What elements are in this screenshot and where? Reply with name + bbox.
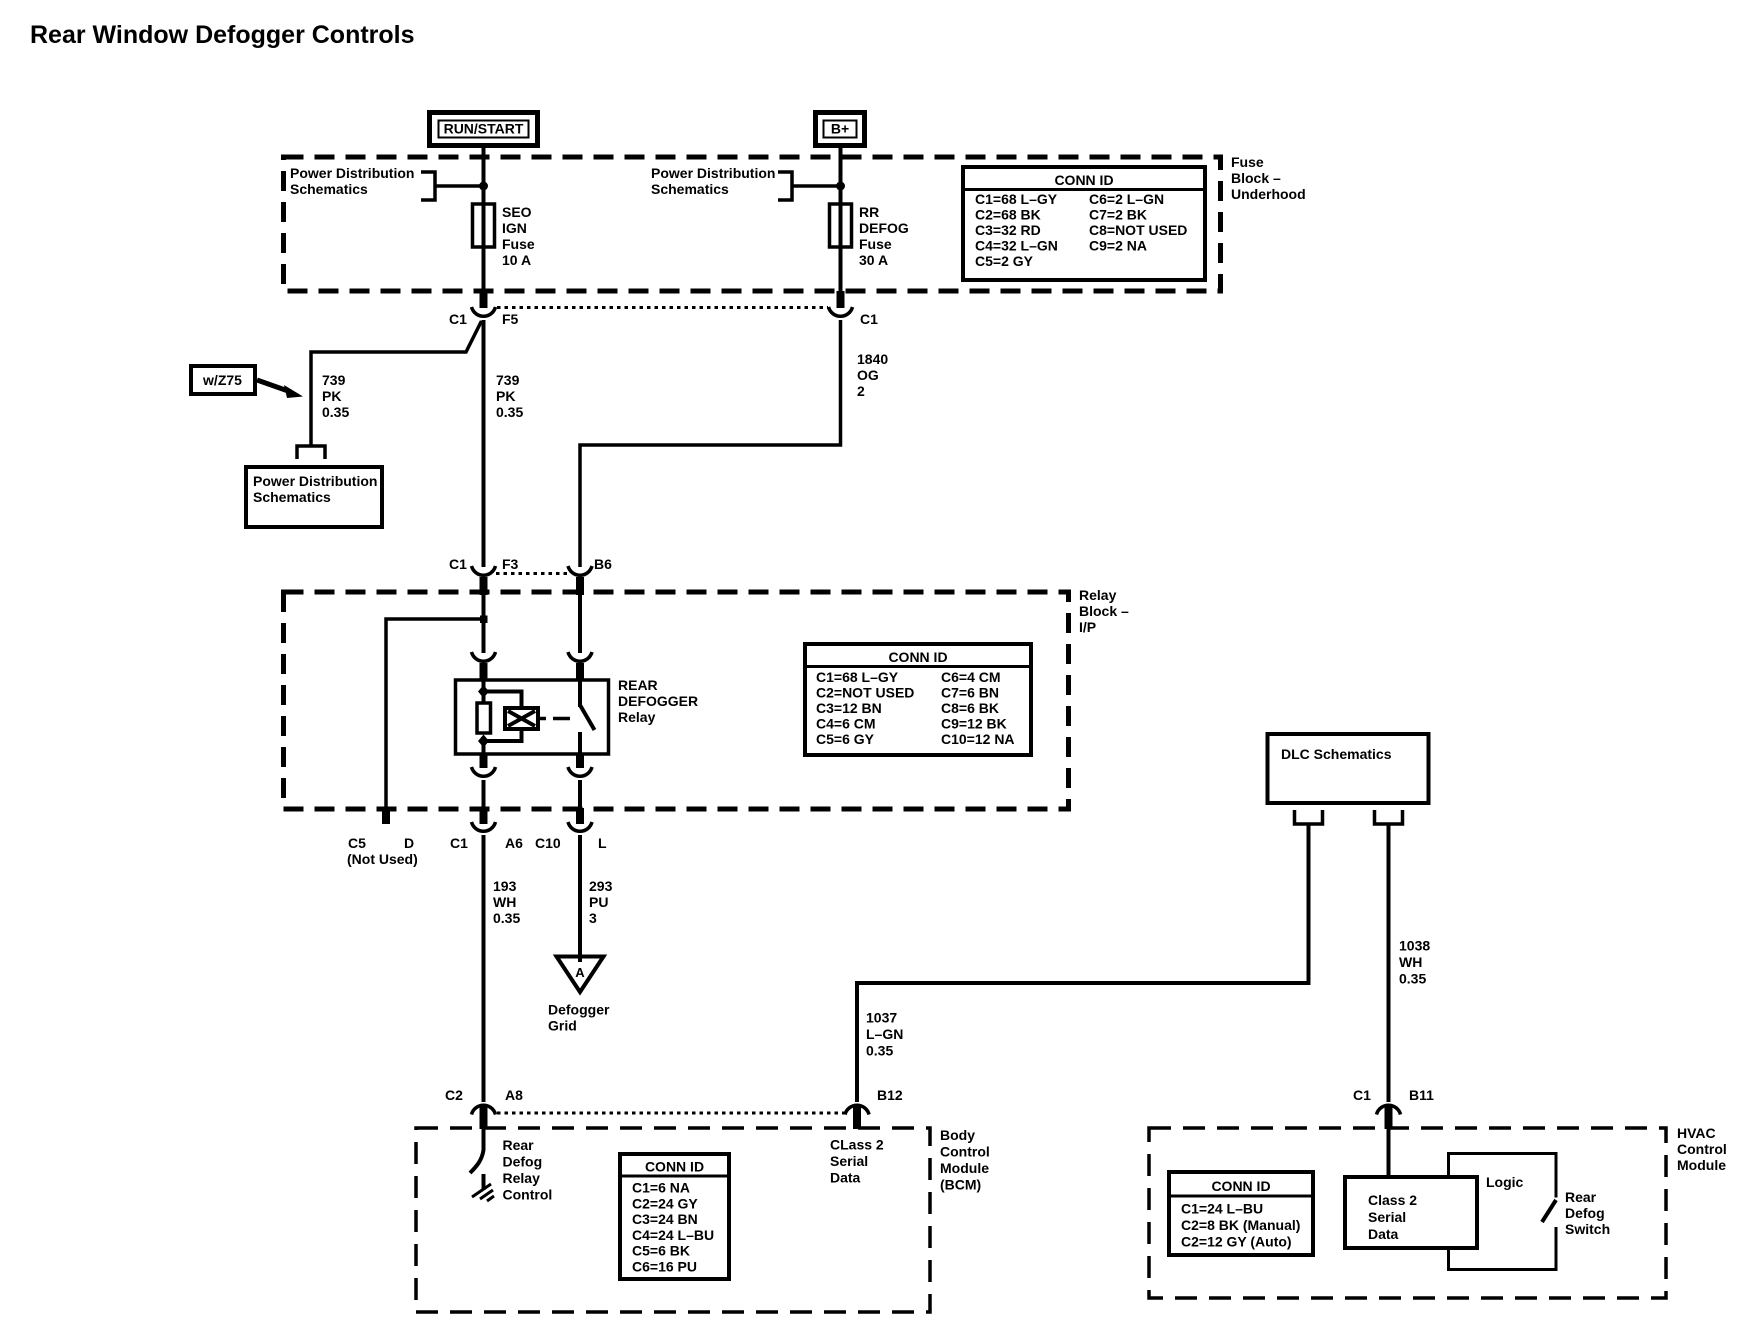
box Power Distribution Schematics (246, 467, 382, 527)
svg-text:DLC Schematics: DLC Schematics (1281, 746, 1392, 762)
svg-text:C9=12 BK: C9=12 BK (941, 716, 1007, 732)
fuse RR DEFOG 30A (830, 204, 909, 268)
wire 293 PU 3 (578, 835, 582, 962)
label w/Z75 (191, 366, 255, 394)
pin stub F5 (480, 291, 488, 308)
wire 1840 OG 2 (580, 320, 841, 567)
svg-text:C2=68 BK: C2=68 BK (975, 207, 1041, 223)
svg-text:C4=24 L–BU: C4=24 L–BU (632, 1227, 714, 1243)
svg-text:193: 193 (493, 878, 517, 894)
wire label 739 PK 0.35 (branch) (322, 372, 349, 420)
svg-text:C1: C1 (1353, 1087, 1371, 1103)
pin stub B6 into relay block (576, 577, 584, 595)
svg-text:Power Distribution: Power Distribution (290, 165, 414, 181)
relay bottom pin arc (coil) (472, 767, 496, 776)
svg-text:3: 3 (589, 910, 597, 926)
svg-text:C2=NOT USED: C2=NOT USED (816, 685, 914, 701)
svg-text:w/Z75: w/Z75 (202, 372, 242, 388)
svg-text:C4=32 L–GN: C4=32 L–GN (975, 238, 1058, 254)
relay switch contact (578, 732, 582, 754)
svg-text:REAR: REAR (618, 677, 658, 693)
relay pin stub (coil) (480, 663, 488, 681)
svg-text:Serial: Serial (830, 1153, 868, 1169)
svg-text:Data: Data (1368, 1226, 1399, 1242)
wire label 1038 WH 0.35 (1399, 938, 1430, 987)
connector C10/L (535, 822, 607, 851)
relay pin stub (switch) (576, 663, 584, 681)
svg-text:C2=24 GY: C2=24 GY (632, 1195, 698, 1211)
svg-text:C5=2 GY: C5=2 GY (975, 253, 1034, 269)
power feed B+ (816, 113, 865, 146)
svg-text:CONN ID: CONN ID (1211, 1178, 1270, 1194)
CONN ID table (BCM) (620, 1154, 729, 1279)
svg-text:C2=12 GY (Auto): C2=12 GY (Auto) (1181, 1234, 1292, 1250)
fuse block underhood dashed box (284, 157, 1221, 291)
svg-text:0.35: 0.35 (866, 1043, 893, 1059)
svg-text:739: 739 (322, 372, 346, 388)
svg-text:A8: A8 (505, 1087, 523, 1103)
svg-text:Defog: Defog (1565, 1205, 1605, 1221)
svg-text:C1: C1 (450, 835, 468, 851)
note Power Distribution Schematics (right) (651, 165, 840, 200)
svg-text:OG: OG (857, 367, 879, 383)
svg-text:A: A (575, 965, 585, 980)
svg-text:PU: PU (589, 894, 608, 910)
svg-text:293: 293 (589, 878, 613, 894)
defogger grid symbol A (557, 957, 604, 993)
svg-text:Underhood: Underhood (1231, 186, 1306, 202)
svg-text:C6=2 L–GN: C6=2 L–GN (1089, 191, 1164, 207)
svg-text:C6=16 PU: C6=16 PU (632, 1259, 697, 1275)
svg-text:Relay: Relay (503, 1170, 541, 1186)
svg-text:C1=6 NA: C1=6 NA (632, 1180, 690, 1196)
svg-text:1038: 1038 (1399, 938, 1430, 954)
svg-text:PK: PK (322, 388, 341, 404)
svg-text:C3=12 BN: C3=12 BN (816, 700, 882, 716)
relay REAR DEFOGGER box (456, 680, 609, 754)
svg-text:HVAC: HVAC (1677, 1125, 1716, 1141)
svg-text:C7=2 BK: C7=2 BK (1089, 207, 1147, 223)
box Logic (1449, 1154, 1557, 1270)
relay coil X-box (505, 708, 538, 729)
svg-text:F3: F3 (502, 556, 519, 572)
BCM dashed box (416, 1128, 930, 1312)
svg-text:C5=6 BK: C5=6 BK (632, 1243, 690, 1259)
svg-text:L: L (598, 835, 607, 851)
svg-text:CONN ID: CONN ID (888, 649, 947, 665)
wire B11 to Class 2 box (1387, 1129, 1391, 1178)
svg-text:Defog: Defog (503, 1154, 543, 1170)
in-line connector dotted line (fuse block bottom) (497, 306, 828, 309)
svg-text:Fuse: Fuse (1231, 154, 1264, 170)
pin stub B11 into HVAC (1385, 1107, 1393, 1129)
label HVAC Control Module (1677, 1125, 1727, 1173)
svg-text:Class 2: Class 2 (1368, 1192, 1417, 1208)
wire 1038 WH 0.35 (DLC to HVAC B11) (1387, 824, 1391, 1102)
wire 193 WH 0.35 (482, 835, 486, 1102)
relay coil wire top (482, 679, 486, 703)
wire label 1037 L-GN 0.35 (866, 1010, 903, 1059)
svg-text:RR: RR (859, 204, 879, 220)
svg-text:C1: C1 (860, 311, 878, 327)
svg-text:Defogger: Defogger (548, 1002, 610, 1018)
svg-text:B+: B+ (831, 121, 849, 137)
connector C1/A6 (450, 822, 523, 851)
relay bottom stub (switch) (576, 753, 584, 768)
pin stub C2/A8 into BCM (480, 1107, 488, 1129)
wire 739 PK 0.35 main (482, 320, 486, 567)
wire to C5/D not used (386, 619, 484, 809)
connector C1/F5 (449, 307, 519, 327)
svg-text:Rear: Rear (503, 1137, 535, 1153)
wire label 293 PU 3 (589, 878, 613, 926)
pin stub B12 into BCM (853, 1107, 861, 1129)
relay coil wire bottom (482, 741, 486, 754)
svg-text:C2=8 BK (Manual): C2=8 BK (Manual) (1181, 1217, 1300, 1233)
in-line connector dotted line (BCM top) (497, 1112, 845, 1115)
svg-text:Control: Control (940, 1144, 990, 1160)
svg-text:C1=24 L–BU: C1=24 L–BU (1181, 1201, 1263, 1217)
svg-text:C10=12 NA: C10=12 NA (941, 731, 1015, 747)
svg-text:DEFOGGER: DEFOGGER (618, 693, 698, 709)
svg-text:Control: Control (1677, 1141, 1727, 1157)
junction (not used branch) (480, 616, 488, 624)
svg-text:2: 2 (857, 383, 865, 399)
svg-text:Data: Data (830, 1170, 861, 1186)
svg-text:Module: Module (940, 1160, 989, 1176)
wire RUN/START to fuse F5 (482, 148, 486, 296)
HVAC dashed box (1149, 1128, 1666, 1298)
BCM driver lower stub (482, 1174, 486, 1190)
wire C1/F3 down to relay coil pin (482, 595, 486, 653)
svg-text:DEFOG: DEFOG (859, 220, 909, 236)
label Relay Block I/P (1079, 587, 1129, 635)
svg-text:0.35: 0.35 (493, 910, 520, 926)
junction dot (RUN/START feed) (479, 182, 488, 191)
connector B12 (845, 1087, 903, 1115)
relay top pin arc (coil side) (472, 652, 496, 661)
off-page pin symbol (to Power Distribution Schematics) (297, 446, 325, 459)
CONN ID table (relay block) (805, 644, 1031, 755)
svg-text:C5: C5 (348, 835, 366, 851)
pin stub C10/L (576, 808, 584, 824)
svg-text:Schematics: Schematics (253, 489, 331, 505)
pin stub B+ C1 (837, 291, 845, 308)
connector C2/A8 (445, 1087, 523, 1115)
svg-text:F5: F5 (502, 311, 519, 327)
connector C1 (B+ feed) (829, 307, 879, 327)
svg-text:CLass 2: CLass 2 (830, 1137, 884, 1153)
svg-text:1840: 1840 (857, 351, 888, 367)
svg-text:D: D (404, 835, 414, 851)
wire relay to block edge (coil) (482, 780, 486, 809)
svg-text:I/P: I/P (1079, 619, 1096, 635)
svg-text:C1: C1 (449, 556, 467, 572)
svg-text:PK: PK (496, 388, 515, 404)
svg-text:Body: Body (940, 1127, 975, 1143)
svg-text:Grid: Grid (548, 1018, 577, 1034)
svg-text:CONN ID: CONN ID (645, 1159, 704, 1175)
label Fuse Block Underhood (1231, 154, 1306, 202)
box DLC Schematics (1268, 734, 1429, 803)
relay switch blade (580, 705, 595, 730)
svg-text:B12: B12 (877, 1087, 903, 1103)
svg-text:Serial: Serial (1368, 1209, 1406, 1225)
svg-text:Relay: Relay (1079, 587, 1117, 603)
label Body Control Module (BCM) (940, 1127, 990, 1193)
relay top pin arc (switch side) (568, 652, 592, 661)
svg-text:C6=4 CM: C6=4 CM (941, 669, 1001, 685)
relay bottom stub (coil) (480, 753, 488, 768)
wire 1037 L-GN 0.35 (DLC to BCM B12) (857, 824, 1309, 1102)
relay bottom pin arc (switch) (568, 767, 592, 776)
svg-text:WH: WH (1399, 954, 1422, 970)
junction diamond top (478, 685, 489, 698)
svg-text:(Not Used): (Not Used) (347, 851, 418, 867)
svg-text:1037: 1037 (866, 1010, 897, 1026)
svg-text:C2: C2 (445, 1087, 463, 1103)
coil-switch dash link (538, 717, 570, 721)
svg-text:WH: WH (493, 894, 516, 910)
relay switch wire (578, 679, 582, 707)
svg-text:Control: Control (503, 1187, 553, 1203)
box Class 2 Serial Data (1345, 1177, 1477, 1248)
wire label 1840 OG 2 (857, 351, 888, 399)
svg-text:B11: B11 (1409, 1087, 1434, 1103)
svg-text:Fuse: Fuse (502, 236, 535, 252)
fuse SEO IGN 10A (473, 204, 535, 268)
svg-text:RUN/START: RUN/START (444, 121, 524, 137)
svg-text:B6: B6 (594, 556, 612, 572)
DLC pin symbol left (1295, 810, 1323, 824)
svg-text:Logic: Logic (1486, 1174, 1524, 1190)
svg-text:IGN: IGN (502, 220, 527, 236)
svg-text:C1=68 L–GY: C1=68 L–GY (816, 669, 899, 685)
svg-text:Rear: Rear (1565, 1189, 1597, 1205)
DLC pin symbol right (1375, 810, 1403, 824)
connector B6 (568, 556, 612, 575)
in-line connector dotted line (relay block top) (496, 572, 568, 575)
svg-text:739: 739 (496, 372, 520, 388)
svg-text:C1=68 L–GY: C1=68 L–GY (975, 191, 1058, 207)
svg-text:Block –: Block – (1231, 170, 1281, 186)
svg-text:C10: C10 (535, 835, 561, 851)
svg-text:L–GN: L–GN (866, 1026, 903, 1042)
label Rear Defog Relay Control (503, 1137, 553, 1203)
svg-text:C5=6 GY: C5=6 GY (816, 731, 875, 747)
svg-text:(BCM): (BCM) (940, 1177, 981, 1193)
svg-text:0.35: 0.35 (496, 404, 523, 420)
svg-text:10 A: 10 A (502, 252, 531, 268)
resistor (relay coil suppressor) (477, 703, 491, 733)
ground (chassis) (472, 1184, 494, 1201)
svg-text:Schematics: Schematics (290, 181, 368, 197)
label REAR DEFOGGER Relay (618, 677, 698, 725)
svg-text:C8=6 BK: C8=6 BK (941, 700, 999, 716)
svg-text:0.35: 0.35 (1399, 971, 1426, 987)
wire 739 PK branch (diagonal from C1/F5) (311, 321, 482, 445)
svg-text:C3=32 RD: C3=32 RD (975, 222, 1041, 238)
svg-text:Fuse: Fuse (859, 236, 892, 252)
label C5 D (Not Used) (347, 835, 418, 867)
pin stub C1/A6 (480, 808, 488, 824)
svg-text:SEO: SEO (502, 204, 532, 220)
svg-text:Power Distribution: Power Distribution (651, 165, 775, 181)
svg-text:C7=6 BN: C7=6 BN (941, 685, 999, 701)
svg-text:Power Distribution: Power Distribution (253, 473, 377, 489)
wire label 193 WH 0.35 (493, 878, 520, 926)
svg-text:C3=24 BN: C3=24 BN (632, 1211, 698, 1227)
label CLass 2 Serial Data (BCM) (830, 1137, 884, 1186)
svg-text:C1: C1 (449, 311, 467, 327)
note Power Distribution Schematics (left) (290, 165, 483, 200)
svg-text:A6: A6 (505, 835, 523, 851)
power feed RUN/START (430, 113, 538, 146)
svg-text:Switch: Switch (1565, 1221, 1610, 1237)
pin stub C5/D (not used) (382, 808, 390, 824)
junction diamond bottom (478, 735, 489, 748)
relay block I/P dashed box (284, 592, 1069, 809)
svg-text:Block –: Block – (1079, 603, 1129, 619)
svg-text:Schematics: Schematics (651, 181, 729, 197)
wire label 739 PK 0.35 (main) (496, 372, 523, 420)
arrow w/Z75 (257, 380, 303, 398)
connector C1/F3 (449, 556, 519, 575)
junction dot (B+ feed) (836, 182, 845, 191)
wire B6 down to relay switch pin (578, 595, 582, 653)
wire B+ to fuse (839, 148, 843, 296)
svg-text:Rear Window Defogger Controls: Rear Window Defogger Controls (30, 21, 415, 49)
CONN ID table (HVAC) (1169, 1172, 1313, 1255)
coil parallel branch (484, 692, 522, 742)
wire relay to block edge (switch) (578, 780, 582, 809)
pin stub C1/F3 into relay block (480, 577, 488, 595)
CONN ID table (fuse block) (963, 167, 1205, 280)
svg-text:C4=6 CM: C4=6 CM (816, 716, 876, 732)
switch Rear Defog blade (1542, 1200, 1556, 1222)
svg-text:CONN ID: CONN ID (1054, 172, 1113, 188)
label Rear Defog Switch (1565, 1189, 1610, 1237)
svg-text:Relay: Relay (618, 709, 656, 725)
svg-text:C9=2 NA: C9=2 NA (1089, 238, 1147, 254)
connector C1/B11 (1353, 1087, 1434, 1115)
svg-text:30 A: 30 A (859, 252, 888, 268)
label Defogger Grid (548, 1002, 610, 1034)
svg-text:0.35: 0.35 (322, 404, 349, 420)
BCM driver switch wire (470, 1129, 484, 1173)
svg-text:C8=NOT USED: C8=NOT USED (1089, 222, 1187, 238)
svg-text:Module: Module (1677, 1157, 1726, 1173)
